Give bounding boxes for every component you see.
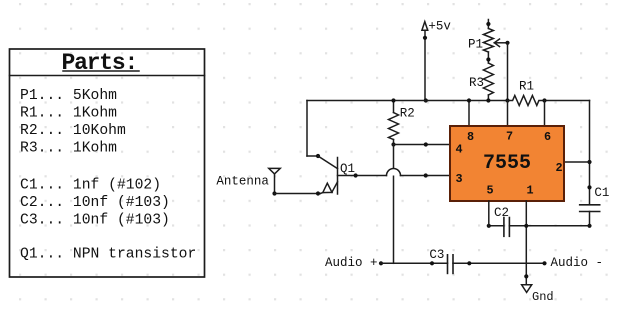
capacitor C3 xyxy=(448,255,454,274)
+5v power symbol xyxy=(422,22,428,31)
resistor R2 xyxy=(389,98,399,144)
capacitor C2 xyxy=(487,218,510,237)
svg-text:1: 1 xyxy=(527,184,534,198)
svg-text:R3: R3 xyxy=(469,76,484,90)
wire left drop to Q1 collector xyxy=(307,101,320,159)
svg-text:3: 3 xyxy=(456,172,463,186)
svg-text:R1... 1Kohm: R1... 1Kohm xyxy=(20,106,117,122)
svg-text:P1... 5Kohm: P1... 5Kohm xyxy=(20,88,117,104)
svg-text:5: 5 xyxy=(487,184,494,198)
svg-text:C3... 10nf (#103): C3... 10nf (#103) xyxy=(20,213,170,229)
wire audio line left (Audio +) xyxy=(379,261,448,265)
svg-text:C1... 1nf (#102): C1... 1nf (#102) xyxy=(20,178,161,194)
wire C1 bottom to ground net xyxy=(509,224,591,228)
parts list box xyxy=(10,49,205,277)
wire pin 4 (reset) xyxy=(391,142,450,146)
svg-text:R2... 10Kohm: R2... 10Kohm xyxy=(20,123,126,139)
svg-text:R2: R2 xyxy=(400,107,415,121)
ground symbol xyxy=(522,285,532,293)
svg-text:Gnd: Gnd xyxy=(532,290,554,304)
svg-text:R3... 1Kohm: R3... 1Kohm xyxy=(20,141,117,157)
transistor Q1 xyxy=(318,156,338,194)
wire R2 drop to audio line xyxy=(393,145,395,264)
wire pin 6 xyxy=(544,101,546,127)
svg-text:2: 2 xyxy=(556,161,563,175)
svg-text:Audio +: Audio + xyxy=(325,256,378,270)
svg-text:Antenna: Antenna xyxy=(216,175,269,189)
svg-text:C2: C2 xyxy=(494,206,509,220)
svg-text:Q1... NPN transistor: Q1... NPN transistor xyxy=(20,247,196,263)
svg-text:+5v: +5v xyxy=(428,20,451,34)
svg-text:C2... 10nf (#103): C2... 10nf (#103) xyxy=(20,195,170,211)
IC U1 7555 body xyxy=(450,126,564,201)
resistor R3 xyxy=(483,63,493,103)
svg-text:6: 6 xyxy=(544,130,551,144)
wire right rail down to pin 2 and C1 xyxy=(587,101,591,205)
svg-text:Parts:: Parts: xyxy=(62,50,138,76)
svg-text:C3: C3 xyxy=(429,248,444,262)
wire pin 8 xyxy=(467,98,471,126)
svg-text:Q1: Q1 xyxy=(340,162,355,176)
junction pin7/wiper on rail xyxy=(505,98,509,102)
svg-text:7555: 7555 xyxy=(483,152,531,175)
wire +5v supply drop xyxy=(423,31,428,103)
wire audio line right (Audio -) xyxy=(453,261,547,265)
wire pin 5 xyxy=(488,201,490,226)
antenna symbol xyxy=(269,168,280,193)
svg-text:4: 4 xyxy=(456,143,463,157)
svg-text:7: 7 xyxy=(506,130,513,144)
wire top rail (+5v net) xyxy=(307,100,590,102)
svg-text:P1: P1 xyxy=(468,38,483,52)
potentiometer P1 xyxy=(483,20,493,64)
parts list entries xyxy=(20,88,196,263)
svg-text:Audio -: Audio - xyxy=(551,256,604,270)
wire antenna to Q1 emitter xyxy=(272,191,320,195)
wire pin 2 xyxy=(564,161,590,163)
wire Q1 base to pin 3 with hop xyxy=(338,169,451,178)
svg-text:R1: R1 xyxy=(519,80,534,94)
svg-text:8: 8 xyxy=(467,130,474,144)
P1 wiper arrow and wire to pin 7 xyxy=(494,39,509,101)
svg-text:C1: C1 xyxy=(594,186,609,200)
capacitor C1 xyxy=(580,205,600,226)
wire pin 1 to ground xyxy=(524,201,528,285)
wire pin 7 xyxy=(507,101,509,127)
resistor R1 xyxy=(508,96,547,106)
